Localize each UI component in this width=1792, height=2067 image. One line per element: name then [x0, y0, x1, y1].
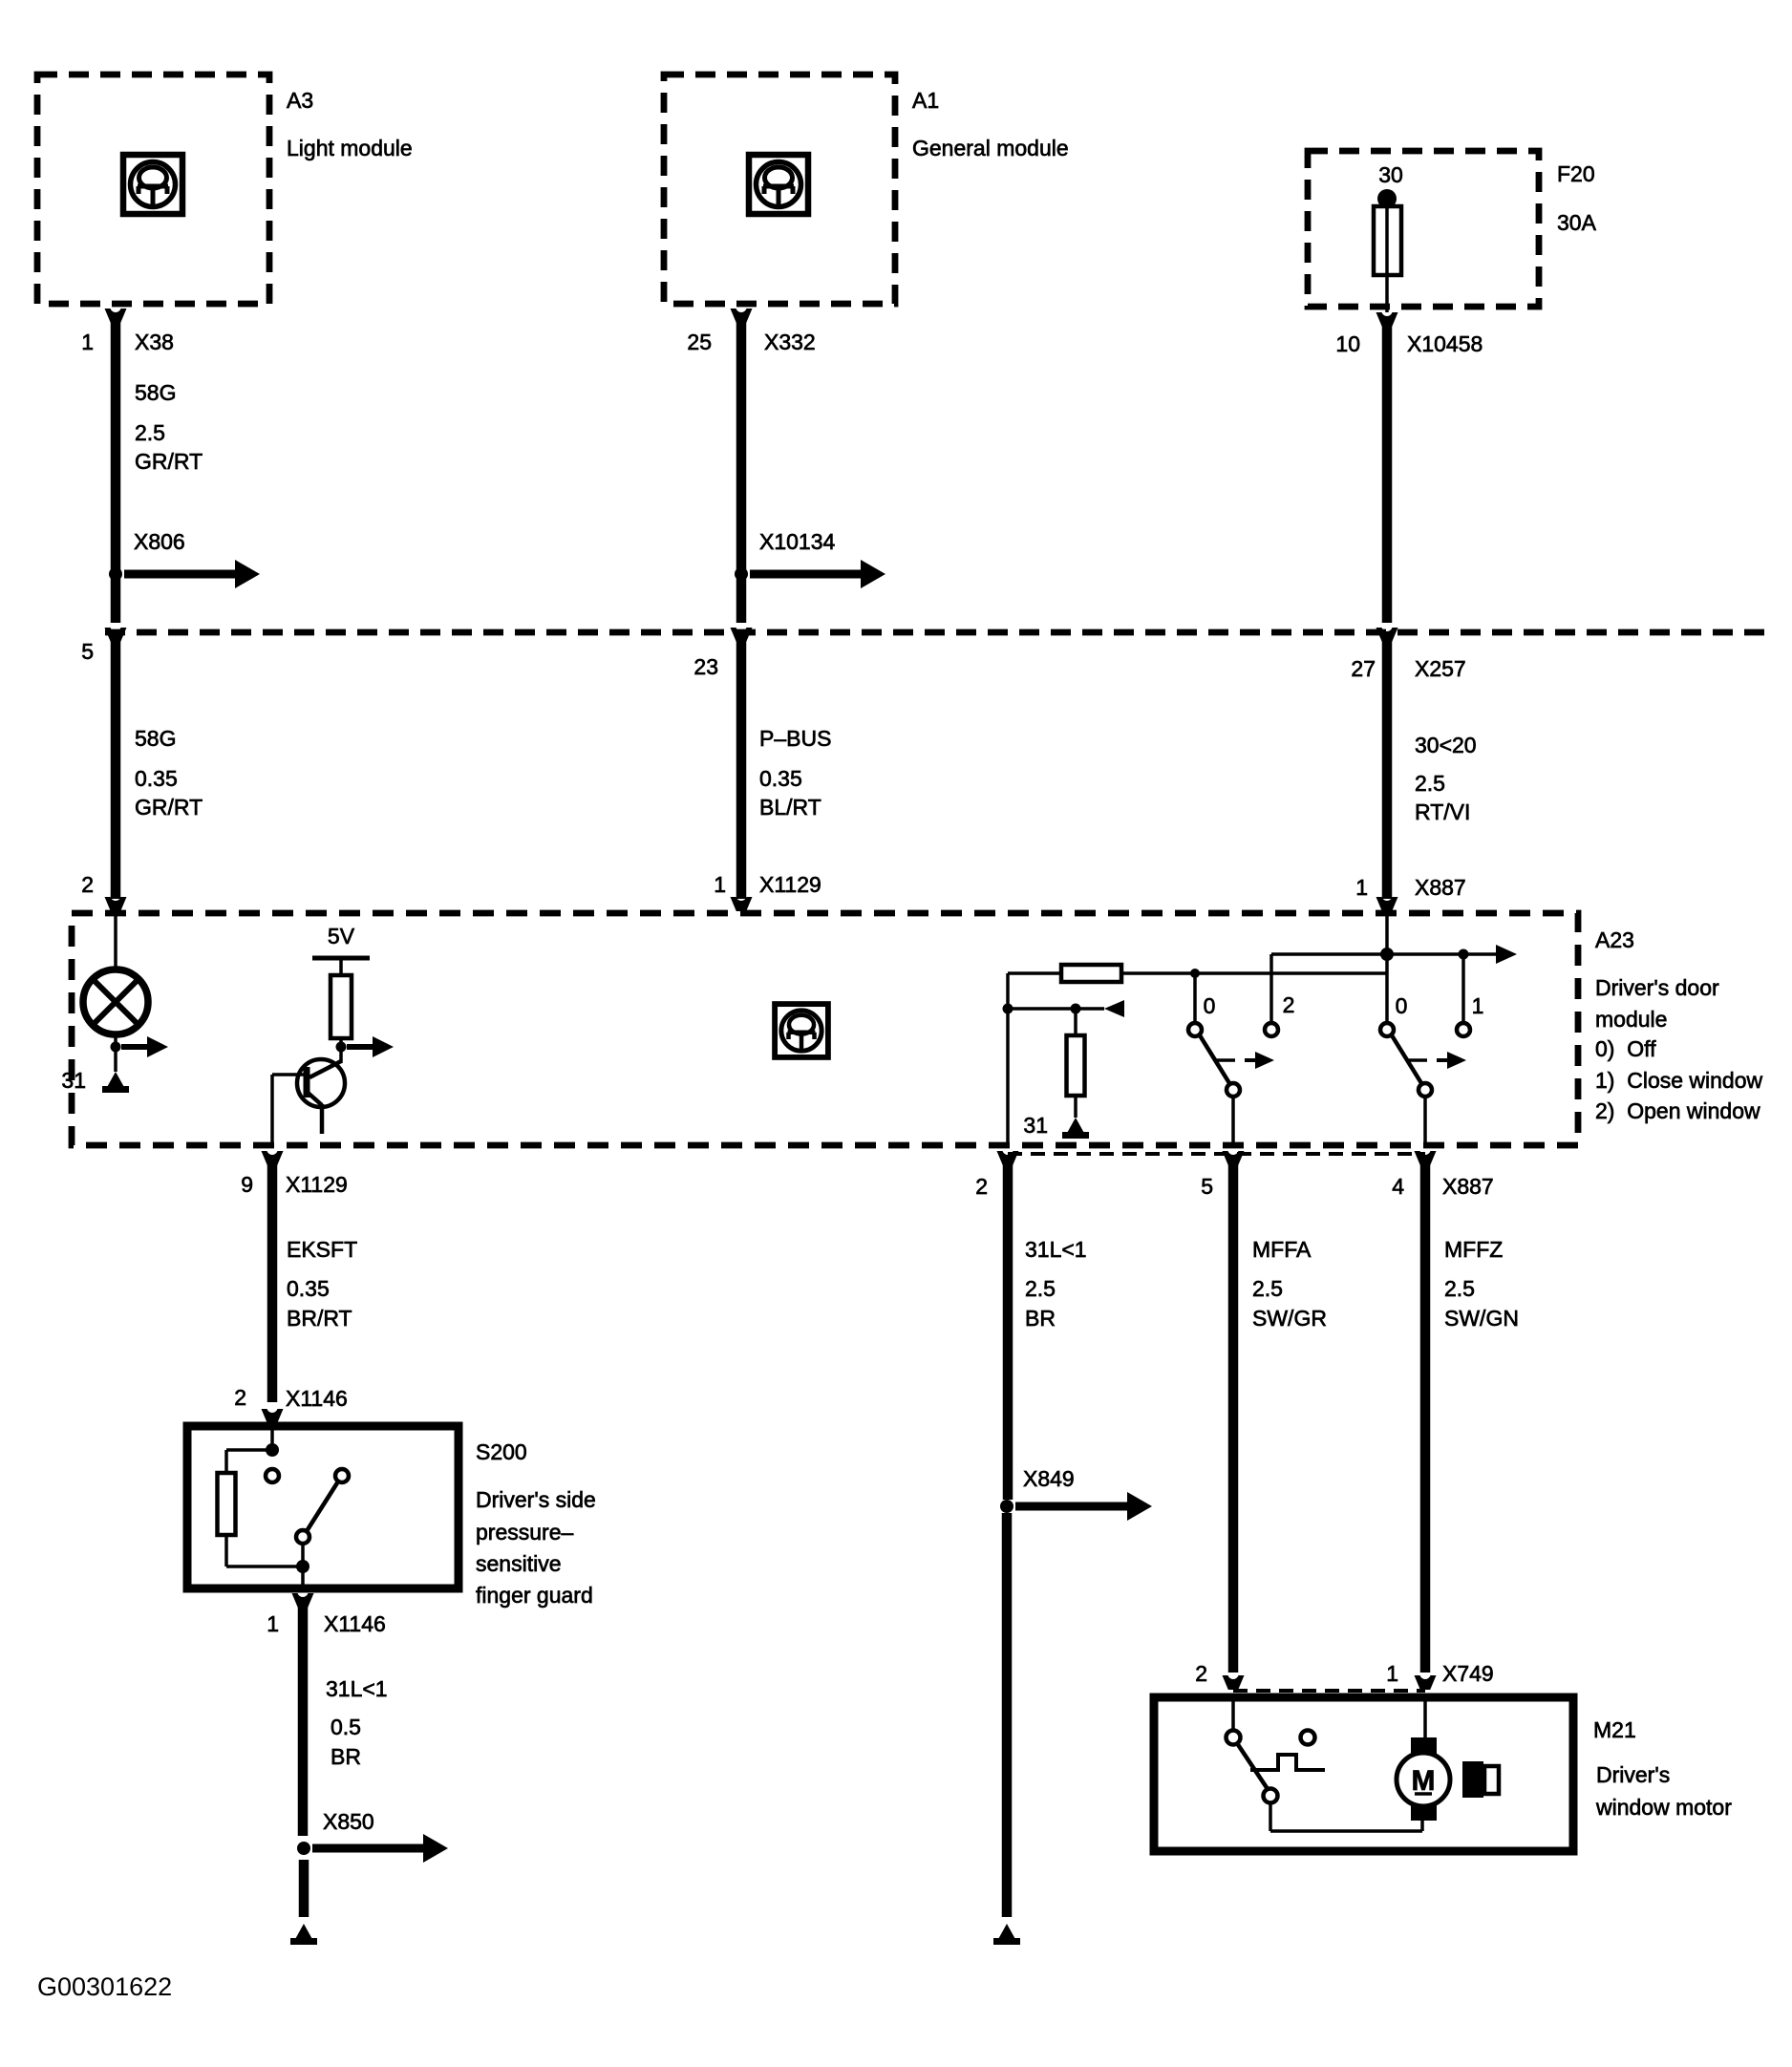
wire resistor to node — [339, 1038, 343, 1063]
svg-text:GR/RT: GR/RT — [135, 449, 203, 474]
svg-text:X749: X749 — [1442, 1661, 1494, 1686]
svg-text:5V: 5V — [328, 924, 355, 948]
connector fork at boundary X257 (pin 27) — [1376, 628, 1398, 642]
svg-text:P–BUS: P–BUS — [759, 726, 831, 751]
junction collector node — [336, 1042, 347, 1053]
svg-text:1: 1 — [267, 1611, 279, 1636]
svg-text:0) Off: 0) Off — [1595, 1036, 1656, 1061]
wire 58G from A3 pin 1 — [111, 321, 121, 570]
contact 2 — [1265, 1023, 1278, 1036]
wire into lamp — [114, 913, 117, 970]
svg-text:2.5: 2.5 — [1415, 771, 1445, 796]
module A1 (General module) dashed box — [664, 75, 895, 304]
switch S2 actuation arrow — [1406, 1058, 1427, 1062]
connector fork into A23 right — [1376, 897, 1398, 911]
5V supply rail — [312, 956, 370, 961]
svg-text:window motor: window motor — [1595, 1795, 1732, 1820]
fuse F20 dashed box — [1308, 151, 1539, 307]
ground 31 below lamp — [106, 1072, 125, 1089]
svg-text:0.5: 0.5 — [331, 1715, 361, 1739]
svg-text:X1129: X1129 — [759, 872, 821, 897]
control-unit symbol inside A23 — [775, 1004, 828, 1057]
wire EKSFT — [267, 1163, 278, 1402]
junction X850 — [297, 1842, 310, 1855]
svg-text:MFFZ: MFFZ — [1444, 1237, 1503, 1262]
wire base to pin 9 — [270, 1075, 274, 1145]
svg-text:SW/GR: SW/GR — [1252, 1306, 1327, 1331]
resistor pull-up — [331, 975, 352, 1038]
svg-text:10: 10 — [1335, 331, 1360, 356]
wire continues to boundary — [736, 579, 747, 623]
harness boundary dashed line — [105, 629, 1775, 636]
svg-text:X850: X850 — [323, 1809, 374, 1834]
fork into S200 — [262, 1409, 284, 1423]
svg-text:0.35: 0.35 — [287, 1276, 330, 1301]
pin 2 fork — [997, 1151, 1019, 1165]
wire to sense resistor — [1074, 1009, 1077, 1035]
module A23 dashed box — [72, 913, 1578, 1145]
switch S1 actuation arrow — [1214, 1058, 1235, 1062]
net to contact 2 — [1271, 952, 1387, 956]
svg-text:30<20: 30<20 — [1415, 733, 1477, 757]
S200 pivot contact — [296, 1530, 309, 1544]
S200 switch blade — [307, 1481, 338, 1531]
S200 exit wire — [301, 1566, 305, 1588]
svg-text:1: 1 — [1355, 875, 1368, 900]
arrow branch from collector node — [347, 1044, 376, 1050]
switch S1 (window down) — [1200, 1035, 1229, 1083]
wire P-BUS 0.35 segment — [736, 640, 747, 899]
connector fork at boundary (pin 5) — [105, 628, 127, 642]
drop to contact 0 left — [1193, 973, 1197, 1023]
svg-text:27: 27 — [1351, 656, 1376, 681]
wire X887 into A23 — [1385, 913, 1389, 1025]
wire to ground left — [299, 1860, 309, 1917]
switch box S200 — [187, 1426, 459, 1588]
resistor R2 vertical — [1067, 1035, 1085, 1096]
svg-text:module: module — [1595, 1007, 1667, 1032]
contact 1 — [1457, 1023, 1470, 1036]
wire 31L brown — [1003, 1163, 1013, 1500]
svg-text:31: 31 — [61, 1068, 86, 1093]
svg-text:25: 25 — [687, 330, 712, 354]
junction 31 node — [1003, 1004, 1013, 1014]
junction X887 node — [1380, 948, 1394, 961]
svg-text:X332: X332 — [764, 330, 816, 354]
svg-text:2: 2 — [1283, 992, 1295, 1017]
control-unit symbol inside A1 — [749, 155, 808, 214]
S200 pivot wire — [301, 1544, 305, 1566]
wire 30<20 segment — [1382, 640, 1393, 899]
svg-text:58G: 58G — [135, 380, 176, 405]
motor direction icon — [1462, 1761, 1499, 1798]
S200 entry junction — [266, 1443, 279, 1457]
connector fork at boundary (pin 23) — [731, 628, 753, 642]
connector fork below F20 — [1376, 312, 1398, 327]
svg-text:X806: X806 — [134, 529, 185, 554]
link to sense resistor — [1008, 1007, 1104, 1011]
contact 0 left — [1188, 1023, 1202, 1036]
svg-text:X1129: X1129 — [286, 1172, 348, 1197]
connector strip X887/X1129 dashed — [1008, 1152, 1425, 1156]
svg-text:X887: X887 — [1415, 875, 1466, 900]
resistor R horizontal — [1061, 965, 1121, 982]
arrow to X850 — [312, 1844, 427, 1853]
pin 4 fork — [1415, 1151, 1437, 1165]
wire lamp to ground — [114, 1034, 117, 1072]
M21 limit switch contact bottom — [1264, 1789, 1278, 1803]
M21 limit switch contact top — [1227, 1731, 1241, 1745]
switch S2 (window up) — [1392, 1035, 1421, 1083]
svg-text:5: 5 — [81, 639, 94, 664]
pin 9 fork — [262, 1151, 284, 1165]
lamp (indicator) symbol — [83, 970, 148, 1034]
M21 entry wire 2 — [1231, 1697, 1235, 1731]
junction resistor line — [1190, 969, 1200, 978]
svg-text:4: 4 — [1392, 1174, 1404, 1199]
M21 wire to motor — [1269, 1802, 1272, 1831]
junction X806 — [109, 567, 122, 581]
svg-text:2: 2 — [975, 1174, 988, 1199]
svg-text:2.5: 2.5 — [1025, 1276, 1056, 1301]
fork into M21 pin 2 — [1223, 1675, 1245, 1690]
junction below lamp — [111, 1042, 121, 1053]
svg-text:A1: A1 — [912, 88, 939, 113]
wire continues to boundary — [111, 579, 121, 623]
svg-text:X10458: X10458 — [1407, 331, 1483, 356]
svg-text:31L<1: 31L<1 — [1025, 1237, 1087, 1262]
arrow out of A23 right — [1468, 952, 1500, 956]
svg-text:Driver's side: Driver's side — [476, 1487, 596, 1512]
svg-text:2: 2 — [234, 1385, 246, 1410]
module A3 (Light module) dashed box — [37, 75, 269, 304]
svg-text:SW/GN: SW/GN — [1444, 1306, 1519, 1331]
svg-text:S200: S200 — [476, 1439, 527, 1464]
net to contact 1 — [1387, 952, 1463, 956]
wire to ground right — [1002, 1513, 1013, 1917]
connector strip X749 dashed — [1233, 1689, 1425, 1693]
svg-text:0: 0 — [1204, 993, 1216, 1018]
svg-text:2) Open window: 2) Open window — [1595, 1098, 1760, 1123]
wire MFFA — [1228, 1163, 1239, 1673]
svg-text:2.5: 2.5 — [135, 420, 165, 445]
svg-text:G00301622: G00301622 — [37, 1972, 172, 2001]
motor box M21 — [1154, 1697, 1573, 1851]
wire resistor to ground — [1074, 1096, 1077, 1118]
svg-text:0: 0 — [1396, 993, 1408, 1018]
svg-text:X10134: X10134 — [759, 529, 836, 554]
ground 31 inside A23 — [1066, 1118, 1085, 1135]
junction above resistor — [1071, 1004, 1081, 1014]
svg-text:5: 5 — [1201, 1174, 1213, 1199]
svg-text:BR/RT: BR/RT — [287, 1306, 352, 1331]
svg-text:X257: X257 — [1415, 656, 1466, 681]
M21 spare contact — [1301, 1731, 1315, 1745]
arrow to X806 — [124, 570, 239, 579]
arrow branch from lamp node — [121, 1044, 151, 1050]
wire 5V to resistor — [339, 958, 343, 975]
svg-text:2: 2 — [1195, 1661, 1207, 1686]
svg-text:X849: X849 — [1023, 1466, 1075, 1491]
S200 switch contact — [335, 1469, 349, 1482]
svg-text:X1146: X1146 — [286, 1386, 348, 1411]
svg-text:M21: M21 — [1593, 1717, 1636, 1742]
svg-text:30: 30 — [1378, 162, 1403, 187]
svg-text:2: 2 — [81, 872, 94, 897]
svg-text:1: 1 — [81, 330, 94, 354]
S200 contact upper — [266, 1469, 279, 1482]
svg-text:X1146: X1146 — [324, 1611, 386, 1636]
svg-text:Light module: Light module — [287, 136, 413, 160]
wire to pin 2 of X887 — [1006, 973, 1010, 1145]
wire 58G 0.35 segment — [111, 640, 121, 899]
M21 cam actuation symbol — [1250, 1755, 1325, 1770]
svg-text:0.35: 0.35 — [135, 766, 178, 791]
connector fork into A23 middle — [731, 897, 753, 911]
connector fork below A3 — [105, 309, 127, 323]
svg-text:31L<1: 31L<1 — [326, 1676, 388, 1701]
wire 30 from F20 pin 10 — [1382, 325, 1393, 623]
motor M — [1397, 1737, 1450, 1821]
connector fork below A1 — [731, 309, 753, 323]
M21 entry wire 1 — [1423, 1697, 1427, 1737]
svg-text:58G: 58G — [135, 726, 176, 751]
junction X849 — [1000, 1500, 1013, 1513]
svg-text:BL/RT: BL/RT — [759, 795, 821, 820]
svg-text:X38: X38 — [135, 330, 174, 354]
contact 0 right — [1380, 1023, 1394, 1036]
svg-text:2.5: 2.5 — [1252, 1276, 1283, 1301]
svg-text:sensitive: sensitive — [476, 1551, 561, 1576]
ground left — [294, 1924, 313, 1941]
svg-text:30A: 30A — [1557, 210, 1597, 235]
svg-text:Driver's: Driver's — [1596, 1762, 1670, 1787]
incoming arrowhead — [1104, 1000, 1124, 1017]
svg-text:1: 1 — [714, 872, 726, 897]
control-unit symbol inside A3 — [123, 155, 182, 214]
base wire of Q1 — [272, 1073, 305, 1076]
S200 entry wire — [270, 1426, 274, 1448]
svg-text:1: 1 — [1386, 1661, 1398, 1686]
svg-text:BR: BR — [331, 1744, 361, 1769]
junction right — [1459, 949, 1469, 960]
connector fork into A23 left — [105, 897, 127, 911]
junction X10134 — [735, 567, 748, 581]
svg-text:2.5: 2.5 — [1444, 1276, 1475, 1301]
svg-text:0.35: 0.35 — [759, 766, 802, 791]
pin 5 fork — [1223, 1151, 1245, 1165]
arrow to X10134 — [750, 570, 864, 579]
svg-text:A3: A3 — [287, 88, 313, 113]
svg-text:1: 1 — [1472, 993, 1484, 1018]
svg-text:Driver's door: Driver's door — [1595, 975, 1719, 1000]
wire MFFZ — [1420, 1163, 1431, 1673]
M21 limit switch blade — [1237, 1743, 1268, 1789]
svg-text:MFFA: MFFA — [1252, 1237, 1312, 1262]
svg-text:1) Close window: 1) Close window — [1595, 1068, 1763, 1093]
S200 exit junction — [296, 1560, 309, 1573]
arrow to X849 — [1015, 1502, 1131, 1511]
resistor line — [1008, 971, 1061, 975]
svg-text:A23: A23 — [1595, 927, 1634, 952]
svg-text:pressure–: pressure– — [476, 1520, 573, 1545]
fuse F20 symbol — [1374, 189, 1401, 312]
svg-text:EKSFT: EKSFT — [287, 1237, 357, 1262]
fork below S200 — [292, 1593, 314, 1608]
svg-text:M: M — [1412, 1765, 1436, 1797]
ground right — [997, 1924, 1016, 1941]
svg-text:GR/RT: GR/RT — [135, 795, 203, 820]
svg-text:23: 23 — [693, 654, 718, 679]
svg-text:31: 31 — [1023, 1113, 1048, 1138]
fork into M21 pin 1 — [1415, 1675, 1437, 1690]
S200 resistor branch — [226, 1448, 272, 1452]
svg-text:F20: F20 — [1557, 161, 1595, 186]
svg-text:finger guard: finger guard — [476, 1583, 593, 1608]
wire 31L 0.5 BR — [298, 1606, 309, 1836]
svg-text:General module: General module — [912, 136, 1069, 160]
svg-text:RT/VI: RT/VI — [1415, 799, 1470, 824]
svg-text:X887: X887 — [1442, 1174, 1494, 1199]
transistor Q1 — [297, 1059, 345, 1134]
svg-text:9: 9 — [241, 1172, 253, 1197]
wire P-BUS from A1 pin 25 — [736, 321, 747, 570]
svg-text:BR: BR — [1025, 1306, 1056, 1331]
